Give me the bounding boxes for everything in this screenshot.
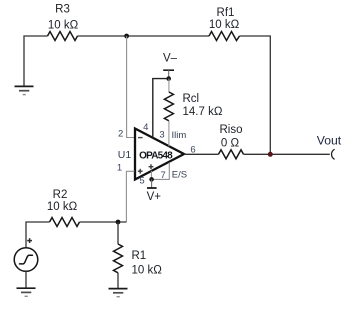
wire: Riso to Vout terminal xyxy=(244,153,330,155)
svg-text:R2: R2 xyxy=(53,189,68,201)
svg-text:R1: R1 xyxy=(132,250,147,262)
minus sign (inverting input) xyxy=(138,137,143,139)
wire: pin 7 (E/S) stub to V+ node xyxy=(151,162,169,179)
ground (under source) xyxy=(17,288,36,296)
V+ terminal xyxy=(147,187,157,189)
wire: R3 right to Rf1 left xyxy=(78,35,210,37)
svg-text:V–: V– xyxy=(163,53,178,65)
plus sign (non-inverting input) xyxy=(138,169,143,174)
wire: top net from ground lead to R3 xyxy=(24,36,48,86)
ground (top-left) xyxy=(15,86,34,94)
Vout terminal connector xyxy=(332,149,335,159)
wire: pin 4 branch to V- net xyxy=(153,79,169,139)
node: R2/R1/pin1 junction xyxy=(116,220,121,225)
svg-text:4: 4 xyxy=(143,122,148,133)
svg-text:1: 1 xyxy=(117,163,122,174)
ground (under R1) xyxy=(109,289,128,297)
svg-text:Rcl: Rcl xyxy=(183,93,200,105)
svg-text:3: 3 xyxy=(159,130,164,141)
svg-text:14.7 kΩ: 14.7 kΩ xyxy=(183,106,223,118)
node: junction top wire / inverting input xyxy=(124,34,129,39)
svg-text:R3: R3 xyxy=(55,3,70,15)
svg-text:Rf1: Rf1 xyxy=(217,7,235,19)
svg-text:E/S: E/S xyxy=(172,170,187,181)
wire: node down to Rcl xyxy=(168,79,170,92)
resistor Rf1 xyxy=(209,32,240,41)
wire: source to ground xyxy=(25,271,27,288)
svg-text:Vout: Vout xyxy=(317,134,342,148)
wire: pin 5 stub xyxy=(150,171,152,180)
svg-text:Ilim: Ilim xyxy=(172,130,187,141)
svg-text:10 kΩ: 10 kΩ xyxy=(132,264,163,276)
wire: Rcl bottom to pin 3 xyxy=(168,121,170,147)
source ramp waveform symbol xyxy=(20,255,33,264)
svg-text:5: 5 xyxy=(139,175,144,186)
svg-text:U1: U1 xyxy=(118,149,132,161)
wire: pin 1 stub from R2/R1 node xyxy=(126,171,134,222)
svg-text:2: 2 xyxy=(118,128,123,139)
resistor Rcl xyxy=(164,92,173,121)
resistor R1 xyxy=(114,244,123,273)
svg-text:10 kΩ: 10 kΩ xyxy=(48,19,79,31)
svg-text:10 kΩ: 10 kΩ xyxy=(47,201,78,213)
wire: V- terminal to node xyxy=(168,70,170,78)
V- terminal xyxy=(163,69,174,71)
svg-text:V+: V+ xyxy=(147,191,162,203)
wire: output pin 6 to Riso xyxy=(184,153,219,155)
plus sign (V+ supply marker) xyxy=(149,164,154,169)
svg-text:OPA548: OPA548 xyxy=(139,150,173,161)
wire: node to V+ terminal xyxy=(151,179,153,188)
source VG1 (signal generator) xyxy=(14,248,38,272)
node: output junction xyxy=(268,152,273,157)
resistor R3 xyxy=(48,32,78,41)
wire: R2 right to node xyxy=(80,221,127,223)
wire: R1 to ground xyxy=(117,273,119,288)
node: V+ junction on pin 5 xyxy=(149,177,154,182)
svg-text:Riso: Riso xyxy=(219,124,242,136)
resistor R2 xyxy=(50,218,80,227)
resistor Riso xyxy=(219,150,244,159)
source VG1 plus marker xyxy=(27,238,32,243)
wire: node down to R1 xyxy=(117,222,119,244)
svg-text:0 Ω: 0 Ω xyxy=(221,137,240,149)
wire: source to R2 xyxy=(26,222,50,247)
op-amp U1 OPA548 triangle xyxy=(135,129,184,180)
wire: Rf1 right end down to output node xyxy=(240,36,271,154)
svg-text:10 kΩ: 10 kΩ xyxy=(209,19,240,31)
node: V- junction xyxy=(166,76,171,81)
wire: inverting input stub (node to pin 2) xyxy=(127,36,135,138)
